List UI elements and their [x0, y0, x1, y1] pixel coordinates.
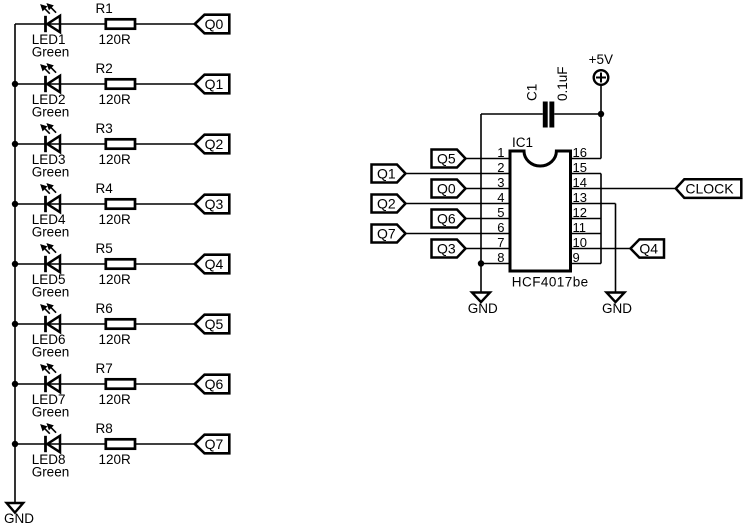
svg-text:CLOCK: CLOCK — [685, 181, 734, 197]
svg-text:15: 15 — [573, 160, 587, 175]
LED LED1 — [41, 4, 60, 32]
svg-text:120R: 120R — [99, 332, 132, 347]
junction rail row 6 — [12, 321, 18, 327]
wire rail to R5 (row 5) — [15, 263, 105, 265]
junction rail row 2 — [12, 81, 18, 87]
svg-text:R6: R6 — [96, 301, 113, 316]
svg-text:16: 16 — [573, 145, 587, 160]
flag Q4 (row 5) — [195, 255, 230, 274]
svg-text:4: 4 — [497, 190, 504, 205]
wire pin13 down to GND — [615, 204, 617, 293]
resistor R6 — [106, 319, 135, 328]
wire rail to R7 (row 7) — [15, 383, 105, 385]
flag Q1 (pin 2) — [372, 165, 406, 183]
svg-text:13: 13 — [573, 190, 587, 205]
pin 15 wire — [571, 173, 602, 175]
wire +5V down to junction — [600, 85, 602, 114]
wire R1 to flag Q0 — [136, 23, 195, 25]
pin 8 wire — [481, 263, 510, 265]
svg-text:Q6: Q6 — [205, 376, 224, 392]
svg-text:120R: 120R — [99, 32, 132, 47]
svg-text:9: 9 — [573, 250, 580, 265]
wire R6 to flag Q5 — [136, 323, 195, 325]
pin 7 wire — [466, 248, 511, 250]
LED LED8 — [41, 424, 60, 452]
svg-text:5: 5 — [497, 205, 504, 220]
svg-text:2: 2 — [497, 160, 504, 175]
power +5V — [589, 52, 613, 85]
resistor R1 — [106, 19, 135, 28]
junction pin8 / GND — [478, 260, 484, 266]
flag Q5 (row 6) — [195, 315, 230, 334]
pin 9 wire — [571, 263, 602, 265]
svg-text:Q3: Q3 — [205, 196, 224, 212]
pin 11 wire — [571, 233, 602, 235]
junction rail row 7 — [12, 381, 18, 387]
svg-text:12: 12 — [573, 205, 587, 220]
svg-text:IC1: IC1 — [512, 135, 533, 150]
svg-text:Q2: Q2 — [205, 136, 224, 152]
pin 14 wire to CLOCK — [571, 188, 676, 190]
capacitor C1 — [543, 102, 555, 128]
wire R8 to flag Q7 — [136, 443, 195, 445]
wire junction down to GND — [480, 264, 482, 293]
svg-text:R8: R8 — [96, 421, 113, 436]
svg-text:120R: 120R — [99, 392, 132, 407]
svg-text:R7: R7 — [96, 361, 113, 376]
svg-text:GND: GND — [4, 511, 34, 526]
svg-text:Q7: Q7 — [205, 436, 224, 452]
svg-text:14: 14 — [573, 175, 587, 190]
svg-text:Q1: Q1 — [205, 76, 224, 92]
LED LED4 — [41, 184, 60, 212]
pin 16 wire — [571, 158, 602, 160]
svg-text:Q4: Q4 — [639, 241, 658, 257]
svg-text:+5V: +5V — [589, 52, 613, 67]
svg-text:Q5: Q5 — [205, 316, 224, 332]
pin 4 wire — [406, 203, 511, 205]
pin 5 wire — [466, 218, 511, 220]
IC IC1 HCF4017be body — [510, 151, 571, 271]
LED LED5 — [41, 244, 60, 272]
svg-text:8: 8 — [497, 250, 504, 265]
svg-text:Q1: Q1 — [377, 166, 396, 182]
svg-text:GND: GND — [468, 301, 498, 316]
wire R2 to flag Q1 — [136, 83, 195, 85]
pin 13 wire — [571, 203, 616, 205]
wire R5 to flag Q4 — [136, 263, 195, 265]
wire ground rail (left) — [14, 24, 16, 503]
pin 12 wire — [571, 218, 602, 220]
svg-text:HCF4017be: HCF4017be — [512, 275, 589, 290]
LED LED3 — [41, 124, 60, 152]
pin 2 wire — [406, 173, 511, 175]
svg-text:120R: 120R — [99, 152, 132, 167]
svg-text:Q0: Q0 — [437, 181, 456, 197]
resistor R4 — [106, 199, 135, 208]
svg-text:Green: Green — [32, 165, 70, 180]
svg-text:Q7: Q7 — [377, 226, 396, 242]
svg-text:R2: R2 — [96, 61, 113, 76]
svg-text:GND: GND — [602, 301, 632, 316]
junction +5V / C1 / pin16 — [598, 111, 604, 117]
resistor R2 — [106, 79, 135, 88]
svg-text:11: 11 — [573, 220, 587, 235]
svg-text:R3: R3 — [96, 121, 113, 136]
flag Q1 (row 2) — [195, 75, 230, 94]
svg-text:7: 7 — [497, 235, 504, 250]
junction rail row 4 — [12, 201, 18, 207]
wire C1 left to VSS rail — [481, 113, 543, 115]
svg-text:Green: Green — [32, 105, 70, 120]
svg-text:Q5: Q5 — [437, 151, 456, 167]
wire R7 to flag Q6 — [136, 383, 195, 385]
ground GND (left of IC) — [468, 293, 498, 317]
flag Q2 (pin 4) — [372, 195, 406, 213]
wire pin16 up to +5V junction — [600, 114, 602, 159]
resistor R3 — [106, 139, 135, 148]
svg-text:Q0: Q0 — [205, 16, 224, 32]
svg-text:6: 6 — [497, 220, 504, 235]
junction rail row 5 — [12, 261, 18, 267]
svg-text:120R: 120R — [99, 212, 132, 227]
wire rail to R6 (row 6) — [15, 323, 105, 325]
wire pin15 down to pin9 (vertical) — [600, 174, 602, 264]
LED LED2 — [41, 64, 60, 92]
svg-text:R1: R1 — [96, 1, 113, 16]
wire rail to R2 (row 2) — [15, 83, 105, 85]
flag Q0 (pin 3) — [432, 180, 466, 198]
svg-text:R5: R5 — [96, 241, 113, 256]
pin 1 wire — [466, 158, 511, 160]
resistor R5 — [106, 259, 135, 268]
pin 6 wire — [406, 233, 511, 235]
svg-text:Q6: Q6 — [437, 211, 456, 227]
svg-text:10: 10 — [573, 235, 587, 250]
pin 3 wire — [466, 188, 511, 190]
wire R3 to flag Q2 — [136, 143, 195, 145]
wire R4 to flag Q3 — [136, 203, 195, 205]
flag Q6 (row 7) — [195, 375, 230, 394]
junction rail row 3 — [12, 141, 18, 147]
svg-text:R4: R4 — [96, 181, 114, 196]
junction rail row 8 — [12, 441, 18, 447]
flag Q0 (row 1) — [195, 15, 230, 34]
pin 10 wire to Q4 — [571, 248, 631, 250]
flag Q4 (pin 10) — [631, 239, 665, 257]
flag Q7 (pin 6) — [372, 225, 406, 243]
flag Q2 (row 3) — [195, 135, 230, 154]
LED LED7 — [41, 364, 60, 392]
wire C1 right to +5V junction — [554, 113, 601, 115]
flag Q3 (pin 7) — [432, 240, 466, 258]
wire rail to R4 (row 4) — [15, 203, 105, 205]
ground GND (bottom left) — [4, 503, 34, 526]
svg-text:120R: 120R — [99, 452, 132, 467]
wire rail to R8 (row 8) — [15, 443, 105, 445]
wire rail to R3 (row 3) — [15, 143, 105, 145]
svg-text:C1: C1 — [524, 84, 539, 101]
svg-text:Q2: Q2 — [377, 196, 396, 212]
svg-text:120R: 120R — [99, 272, 132, 287]
svg-text:Green: Green — [32, 225, 70, 240]
svg-text:120R: 120R — [99, 92, 132, 107]
flag Q5 (pin 1) — [432, 150, 466, 168]
flag CLOCK (pin 14) — [676, 179, 742, 198]
flag Q3 (row 4) — [195, 195, 230, 214]
svg-text:Q3: Q3 — [437, 241, 456, 257]
wire rail to R1 (row 1) — [15, 23, 105, 25]
resistor R7 — [106, 379, 135, 388]
svg-text:Green: Green — [32, 345, 70, 360]
svg-text:Green: Green — [32, 465, 70, 480]
svg-text:1: 1 — [497, 145, 504, 160]
svg-text:0.1uF: 0.1uF — [555, 66, 570, 101]
svg-text:Green: Green — [32, 45, 70, 60]
svg-text:Green: Green — [32, 405, 70, 420]
flag Q6 (pin 5) — [432, 210, 466, 228]
LED LED6 — [41, 304, 60, 332]
resistor R8 — [106, 439, 135, 448]
svg-text:Green: Green — [32, 285, 70, 300]
flag Q7 (row 8) — [195, 435, 230, 454]
ground GND (right, pin 13) — [602, 293, 632, 317]
svg-text:Q4: Q4 — [205, 256, 224, 272]
svg-text:3: 3 — [497, 175, 504, 190]
wire VSS vertical (C1 left down to pin 8) — [480, 114, 482, 264]
